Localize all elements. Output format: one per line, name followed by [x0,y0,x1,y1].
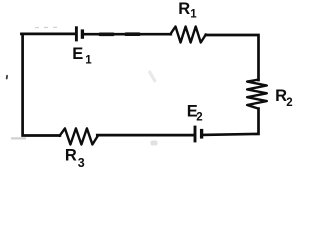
svg-text:R: R [275,87,287,105]
svg-text:1: 1 [190,9,197,21]
battery E2 [195,126,202,143]
label R3 [65,146,85,170]
svg-text:R: R [65,146,77,164]
svg-text:2: 2 [196,112,202,124]
svg-text:E: E [72,45,83,63]
label E1 [72,45,92,67]
label E2 [187,102,203,123]
svg-text:2: 2 [286,97,292,109]
wire E2 to R3 [97,134,193,137]
label R1 [178,0,197,21]
resistor R1 [170,27,206,43]
battery E1 [76,26,82,41]
wire top-left to E1 [21,33,75,36]
svg-text:1: 1 [85,55,92,67]
svg-text:3: 3 [78,156,85,169]
resistor R3 [60,128,98,144]
label R2 [275,87,293,109]
svg-text:R: R [178,0,190,18]
wire E1 to R1 [84,33,171,36]
resistor R2 [247,80,267,109]
wire R2 to E2 via bottom-right corner [203,109,259,135]
wire R1 to R2 via top-right corner [206,35,259,80]
wire R3 to top-left corner via bottom-left corner [23,34,60,136]
